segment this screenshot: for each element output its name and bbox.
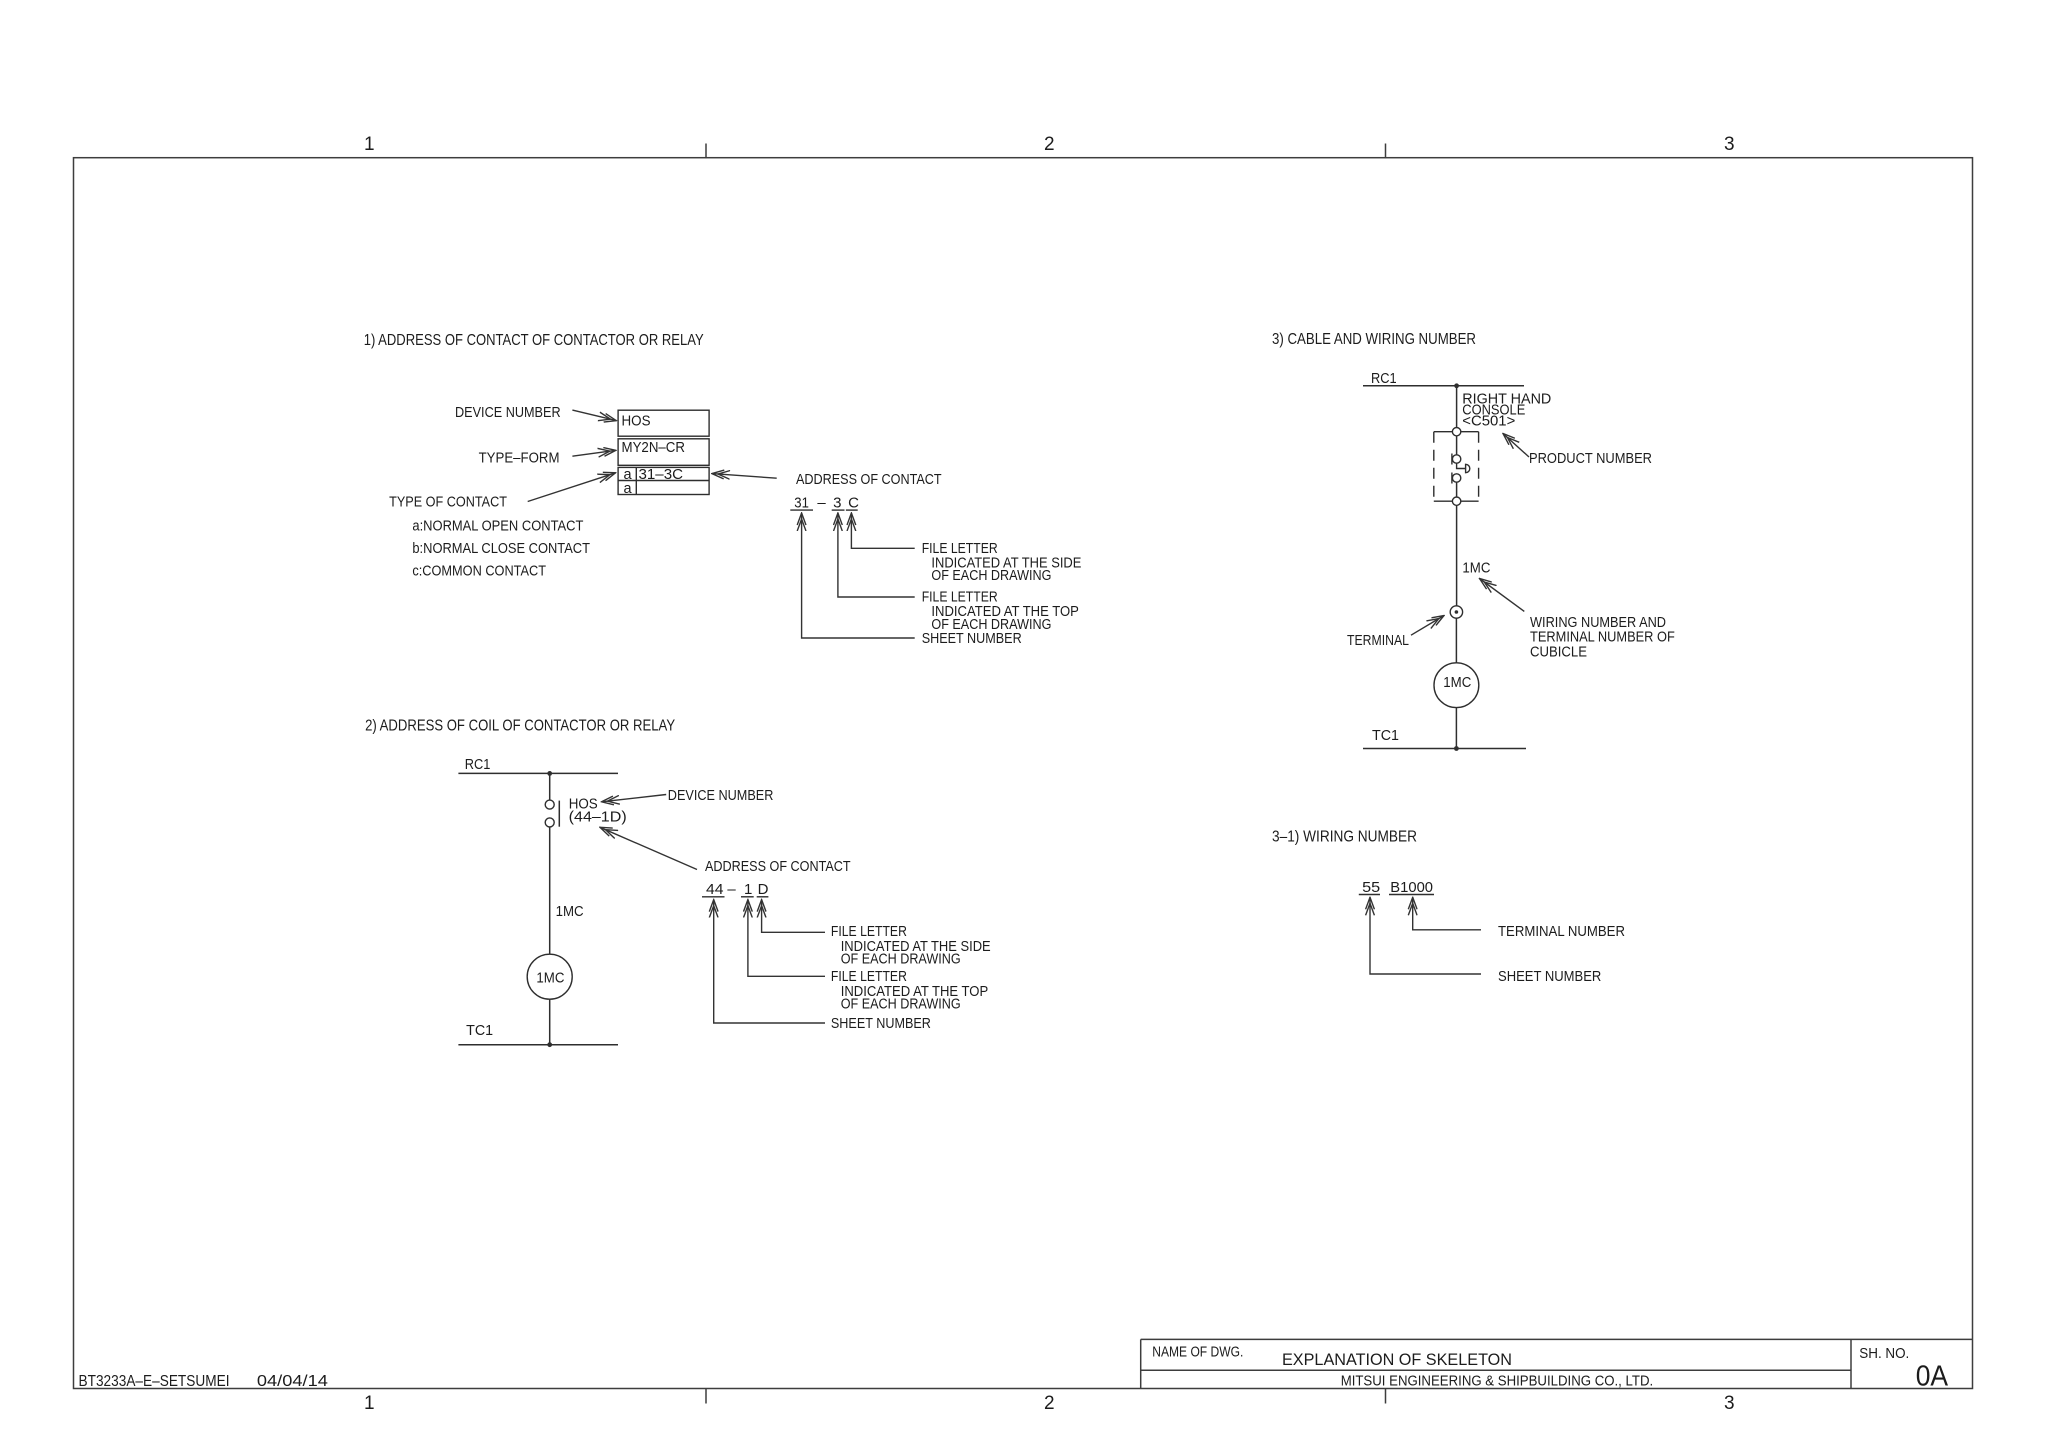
bus wire TC1 (section 2) xyxy=(458,1044,618,1046)
svg-text:–: – xyxy=(727,881,736,898)
svg-text:DEVICE NUMBER: DEVICE NUMBER xyxy=(668,787,774,804)
svg-text:BT3233A–E–SETSUMEI: BT3233A–E–SETSUMEI xyxy=(79,1373,230,1390)
leader file letter top (section 1) xyxy=(838,513,915,597)
svg-text:44: 44 xyxy=(706,881,724,898)
bus wire RC1 (section 3) xyxy=(1363,385,1524,387)
svg-text:<C501>: <C501> xyxy=(1462,412,1515,429)
svg-text:55: 55 xyxy=(1362,879,1380,896)
leader sheet number (section 1) xyxy=(802,513,915,638)
svg-text:RC1: RC1 xyxy=(465,756,491,773)
svg-text:1: 1 xyxy=(744,881,752,898)
svg-text:SHEET NUMBER: SHEET NUMBER xyxy=(1498,968,1601,985)
svg-text:TYPE OF CONTACT: TYPE OF CONTACT xyxy=(389,494,507,511)
svg-text:TC1: TC1 xyxy=(466,1022,493,1039)
svg-text:1: 1 xyxy=(364,1393,375,1414)
leader file letter side (section 2) xyxy=(762,900,825,933)
svg-text:3–1) WIRING NUMBER: 3–1) WIRING NUMBER xyxy=(1272,829,1417,846)
svg-text:b:NORMAL CLOSE CONTACT: b:NORMAL CLOSE CONTACT xyxy=(412,540,590,557)
svg-text:TERMINAL NUMBER: TERMINAL NUMBER xyxy=(1498,923,1625,940)
relay U1 address box xyxy=(618,410,709,494)
wire RC1 to contact HOS xyxy=(549,773,551,800)
contact HOS terminal circle upper xyxy=(545,800,554,809)
svg-text:a: a xyxy=(624,481,633,497)
svg-text:0A: 0A xyxy=(1916,1361,1949,1393)
plug contact circle lower xyxy=(1452,474,1460,482)
leader sheet number (section 3-1) xyxy=(1370,897,1481,974)
svg-text:2: 2 xyxy=(1044,134,1055,155)
svg-text:MY2N–CR: MY2N–CR xyxy=(622,439,686,456)
svg-text:D: D xyxy=(758,881,769,898)
bus wire TC1 (section 3) xyxy=(1363,748,1526,750)
svg-text:a:NORMAL OPEN CONTACT: a:NORMAL OPEN CONTACT xyxy=(412,518,583,535)
svg-text:ADDRESS OF CONTACT: ADDRESS OF CONTACT xyxy=(796,471,942,488)
svg-text:c:COMMON CONTACT: c:COMMON CONTACT xyxy=(412,563,546,580)
plug stem xyxy=(1457,463,1466,468)
svg-text:TYPE–FORM: TYPE–FORM xyxy=(479,449,560,466)
svg-text:1MC: 1MC xyxy=(556,903,584,920)
wire top pin to plug xyxy=(1456,436,1458,455)
svg-text:PRODUCT NUMBER: PRODUCT NUMBER xyxy=(1529,450,1652,467)
leader sheet number (section 2) xyxy=(714,900,825,1023)
leader terminal number (section 3-1) xyxy=(1413,897,1481,930)
svg-text:1MC: 1MC xyxy=(536,970,564,987)
terminal symbol xyxy=(1450,606,1462,618)
svg-text:OF EACH DRAWING: OF EACH DRAWING xyxy=(841,951,961,968)
svg-text:NAME OF DWG.: NAME OF DWG. xyxy=(1152,1345,1243,1361)
wire terminal to coil (section 3) xyxy=(1455,618,1457,663)
svg-text:C: C xyxy=(848,495,859,512)
coil 1MC (section 2) xyxy=(527,954,572,999)
svg-text:OF EACH DRAWING: OF EACH DRAWING xyxy=(931,567,1051,584)
svg-text:3: 3 xyxy=(1724,134,1735,155)
svg-text:TERMINAL: TERMINAL xyxy=(1347,632,1409,649)
junction node on RC1 (section 2) xyxy=(547,771,552,776)
svg-text:1: 1 xyxy=(364,134,375,155)
console box C501 xyxy=(1434,432,1479,502)
svg-text:3: 3 xyxy=(833,495,841,512)
svg-text:31: 31 xyxy=(794,495,809,512)
svg-text:HOS: HOS xyxy=(622,413,651,430)
wire RC1 to console connector xyxy=(1456,386,1458,428)
svg-text:ADDRESS OF CONTACT: ADDRESS OF CONTACT xyxy=(705,858,851,875)
connector pin circle top xyxy=(1452,428,1460,436)
wire coil to TC1 (section 3) xyxy=(1455,708,1457,749)
leader file letter side (section 1) xyxy=(851,513,914,548)
contact HOS bar xyxy=(558,801,560,827)
leader file letter top (section 2) xyxy=(748,900,825,977)
bus wire RC1 (section 2) xyxy=(458,772,618,774)
svg-text:1MC: 1MC xyxy=(1462,560,1490,577)
svg-text:2) ADDRESS OF COIL OF CONTACTO: 2) ADDRESS OF COIL OF CONTACTOR OR RELAY xyxy=(365,718,675,735)
junction node on TC1 (section 2) xyxy=(547,1042,552,1047)
plug contact bar upper xyxy=(1451,454,1453,465)
svg-text:SH. NO.: SH. NO. xyxy=(1859,1346,1909,1362)
svg-text:MITSUI ENGINEERING & SHIPBUILD: MITSUI ENGINEERING & SHIPBUILDING CO., L… xyxy=(1341,1373,1654,1390)
svg-text:31–3C: 31–3C xyxy=(639,467,684,483)
contact HOS terminal circle lower xyxy=(545,818,554,827)
svg-text:SHEET NUMBER: SHEET NUMBER xyxy=(922,630,1022,647)
svg-text:04/04/14: 04/04/14 xyxy=(257,1373,328,1390)
svg-text:B1000: B1000 xyxy=(1390,879,1433,896)
svg-text:DEVICE NUMBER: DEVICE NUMBER xyxy=(455,404,561,421)
svg-text:1MC: 1MC xyxy=(1443,674,1471,691)
wire coil 1MC to TC1 xyxy=(549,999,551,1044)
svg-text:3) CABLE AND WIRING NUMBER: 3) CABLE AND WIRING NUMBER xyxy=(1272,331,1476,348)
plug contact bar lower xyxy=(1451,473,1453,484)
svg-text:1) ADDRESS OF CONTACT OF CONTA: 1) ADDRESS OF CONTACT OF CONTACTOR OR RE… xyxy=(364,332,704,349)
svg-text:OF EACH DRAWING: OF EACH DRAWING xyxy=(841,996,961,1013)
plug contact circle upper xyxy=(1452,455,1460,463)
wire console to terminal xyxy=(1456,505,1458,605)
junction node on TC1 (section 3) xyxy=(1454,746,1459,751)
wire contact HOS to coil 1MC xyxy=(549,827,551,954)
svg-text:CUBICLE: CUBICLE xyxy=(1530,643,1587,660)
coil 1MC (section 3) xyxy=(1434,663,1479,708)
plug symbol D xyxy=(1466,464,1470,472)
svg-text:–: – xyxy=(817,495,826,512)
wire lower pin to bottom pin xyxy=(1456,482,1458,497)
svg-text:TC1: TC1 xyxy=(1372,727,1399,744)
svg-text:3: 3 xyxy=(1724,1393,1735,1414)
svg-text:SHEET NUMBER: SHEET NUMBER xyxy=(831,1015,931,1032)
svg-text:2: 2 xyxy=(1044,1393,1055,1414)
svg-text:(44–1D): (44–1D) xyxy=(569,809,627,826)
title block xyxy=(1141,1339,1973,1388)
svg-text:RC1: RC1 xyxy=(1371,370,1397,387)
svg-text:EXPLANATION OF SKELETON: EXPLANATION OF SKELETON xyxy=(1282,1350,1512,1369)
connector pin circle bottom xyxy=(1452,497,1460,505)
junction node on RC1 (section 3) xyxy=(1454,383,1459,388)
